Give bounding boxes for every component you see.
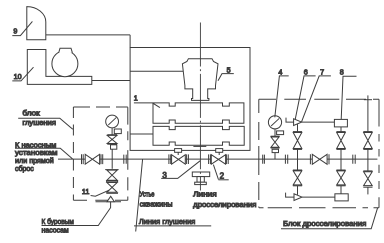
- valve 11 top flange: [105, 169, 118, 171]
- valve 11 upper gate valve: [107, 170, 117, 180]
- svg-text:насосам: насосам: [42, 226, 69, 235]
- wire frame stub above: [129, 35, 131, 48]
- ram preventer block 1 lower: [153, 126, 244, 145]
- stem down to valve 11: [111, 159, 113, 169]
- kill unit dashed box: [73, 107, 127, 200]
- adjustable choke 6/7 upper: [286, 118, 334, 126]
- svg-text:9: 9: [13, 27, 17, 36]
- branch 3 stem top: [364, 95, 372, 131]
- svg-text:1: 1: [134, 93, 138, 102]
- valve 2 flanges right: [226, 154, 228, 164]
- gate valve (kill line inlet): [85, 154, 99, 164]
- svg-text:11: 11: [82, 187, 89, 196]
- valve 2 gate valve: [211, 155, 225, 165]
- valve 3 tab: [175, 149, 182, 155]
- rotating preventer 10: [27, 48, 92, 84]
- label 7: [302, 68, 331, 122]
- label 8: [340, 68, 357, 120]
- flange pair right of central valve: [353, 155, 355, 164]
- branch 2 lower valve: [336, 159, 345, 194]
- branch 1 upper valve: [293, 132, 302, 160]
- valve 3 gate valve: [172, 155, 186, 165]
- flange tick on wellbore: [193, 145, 206, 147]
- entry flange pair: [263, 155, 265, 164]
- branch 3 upper valve: [363, 132, 372, 160]
- valve 11 lower gate valve: [107, 183, 117, 193]
- label kill line: [134, 217, 211, 226]
- remote choke 8 lower: [335, 194, 348, 201]
- branch 2 upper valve: [336, 132, 345, 160]
- svg-text:10: 10: [14, 72, 22, 81]
- label 9: [12, 21, 32, 35]
- leader kill line label: [136, 159, 143, 231]
- remote choke 8 upper: [334, 119, 347, 131]
- label 2: [213, 165, 228, 181]
- wire side outlet: [130, 133, 153, 135]
- branch 1 stem upper: [297, 124, 299, 131]
- svg-text:4: 4: [278, 68, 282, 77]
- svg-text:дросселирования: дросселирования: [193, 200, 256, 209]
- svg-text:Блок дросселирования: Блок дросселирования: [283, 219, 366, 228]
- flange pair: [101, 154, 103, 164]
- valve 2 tab: [216, 149, 223, 155]
- annular preventer 9: [27, 7, 46, 40]
- label wellhead: [140, 189, 173, 208]
- valve 11 bottom flange: [106, 192, 118, 194]
- wire from annular preventer 9 to frame: [46, 34, 130, 36]
- flange pair: [82, 154, 84, 164]
- label 10: [12, 67, 33, 81]
- svg-text:Устье: Устье: [140, 189, 155, 198]
- adjustable choke lower: [286, 193, 335, 201]
- gauge isolation valve (kill unit): [107, 135, 117, 159]
- flange pair at frame: [124, 155, 126, 164]
- label 3: [161, 161, 200, 180]
- pipe to drilling pumps: [42, 202, 111, 226]
- branch 1 lower valve: [293, 159, 302, 195]
- svg-text:блок: блок: [22, 108, 40, 117]
- svg-text:8: 8: [340, 68, 344, 77]
- pressure gauge (kill unit): [106, 115, 122, 134]
- valve 2 flanges left: [209, 154, 211, 164]
- annular BOP 5: [182, 59, 218, 101]
- central gate valve: [310, 154, 329, 164]
- valve 3 flanges left: [169, 154, 171, 164]
- label wellhead leaders / choke line label: [193, 189, 256, 209]
- pressure gauge 4: [268, 116, 283, 136]
- flange pair left of branch 1: [285, 155, 287, 164]
- main horizontal line: [58, 158, 377, 160]
- label 1: [134, 93, 160, 107]
- svg-text:2: 2: [220, 171, 225, 180]
- label 6: [295, 68, 315, 120]
- label choke unit: [281, 208, 378, 229]
- gauge 4 isolation valve: [271, 136, 280, 159]
- wire from rotating preventer 10 to frame: [92, 80, 130, 82]
- choke unit dashed box: [259, 99, 379, 208]
- svg-text:7: 7: [320, 68, 324, 77]
- svg-text:скважины: скважины: [140, 200, 173, 209]
- svg-text:глушения: глушения: [22, 118, 56, 127]
- svg-text:Линия: Линия: [193, 189, 217, 198]
- svg-text:сброс: сброс: [15, 164, 34, 173]
- casing spool tee: [192, 172, 209, 185]
- label to drilling pumps: [42, 217, 74, 234]
- valve 3 flanges right: [187, 154, 189, 164]
- wellbore center line: [199, 23, 201, 191]
- label 11: [82, 187, 110, 196]
- wire connector to annular BOP 5: [130, 70, 183, 72]
- svg-text:6: 6: [304, 68, 308, 77]
- label 5: [218, 66, 234, 81]
- valve 11 middle flange: [107, 181, 118, 182]
- svg-text:Линия глушения: Линия глушения: [139, 217, 195, 226]
- ram preventer block 1 upper: [153, 103, 244, 123]
- substructure frame rectangle: [130, 48, 250, 151]
- label kill unit: [18, 108, 73, 129]
- label 4: [275, 68, 289, 118]
- leader to pump units: [15, 148, 73, 159]
- label to pump units: [15, 140, 58, 173]
- flow arrow from pumps: [96, 196, 122, 201]
- branch 3 lower valve: [363, 159, 372, 194]
